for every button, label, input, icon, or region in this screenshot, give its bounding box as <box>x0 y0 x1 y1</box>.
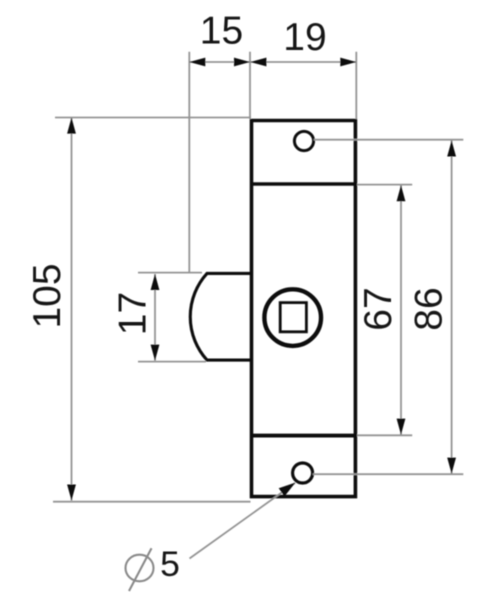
thin dimension / extension lines <box>53 52 463 559</box>
top screw hole <box>294 131 313 150</box>
svg-text:19: 19 <box>283 16 326 59</box>
diameter symbol <box>126 548 154 591</box>
ext line x=356 <box>355 52 357 119</box>
svg-text:15: 15 <box>200 10 243 53</box>
spindle boss circle <box>264 289 321 346</box>
svg-text:5: 5 <box>160 544 180 584</box>
svg-text:86: 86 <box>408 287 451 330</box>
17 bottom ext <box>138 361 206 363</box>
top dim line <box>189 61 356 63</box>
svg-text:17: 17 <box>112 292 155 335</box>
leader arrow <box>279 483 296 497</box>
svg-text:105: 105 <box>26 263 69 328</box>
divider top <box>252 182 356 186</box>
67 top ext <box>357 184 412 186</box>
17 top ext <box>138 272 202 274</box>
square spindle hole <box>280 303 306 332</box>
105 top ext <box>55 117 251 119</box>
86 bottom ext <box>313 473 464 475</box>
leader line <box>190 483 296 559</box>
latch bolt <box>190 273 251 360</box>
105 bottom ext <box>53 501 251 503</box>
67 bottom ext <box>357 434 412 436</box>
ext line x=250 <box>249 52 251 119</box>
86 top ext <box>314 139 464 141</box>
86 dim line <box>451 141 453 474</box>
svg-text:67: 67 <box>357 287 400 330</box>
ext line x=189 <box>188 52 190 274</box>
bottom screw hole <box>293 463 313 483</box>
67 dim line <box>400 185 402 434</box>
arrowheads <box>67 58 456 501</box>
divider bottom <box>252 434 356 438</box>
faceplate outline <box>252 121 356 497</box>
105 dim line <box>71 118 73 501</box>
17 dim line <box>154 274 156 361</box>
